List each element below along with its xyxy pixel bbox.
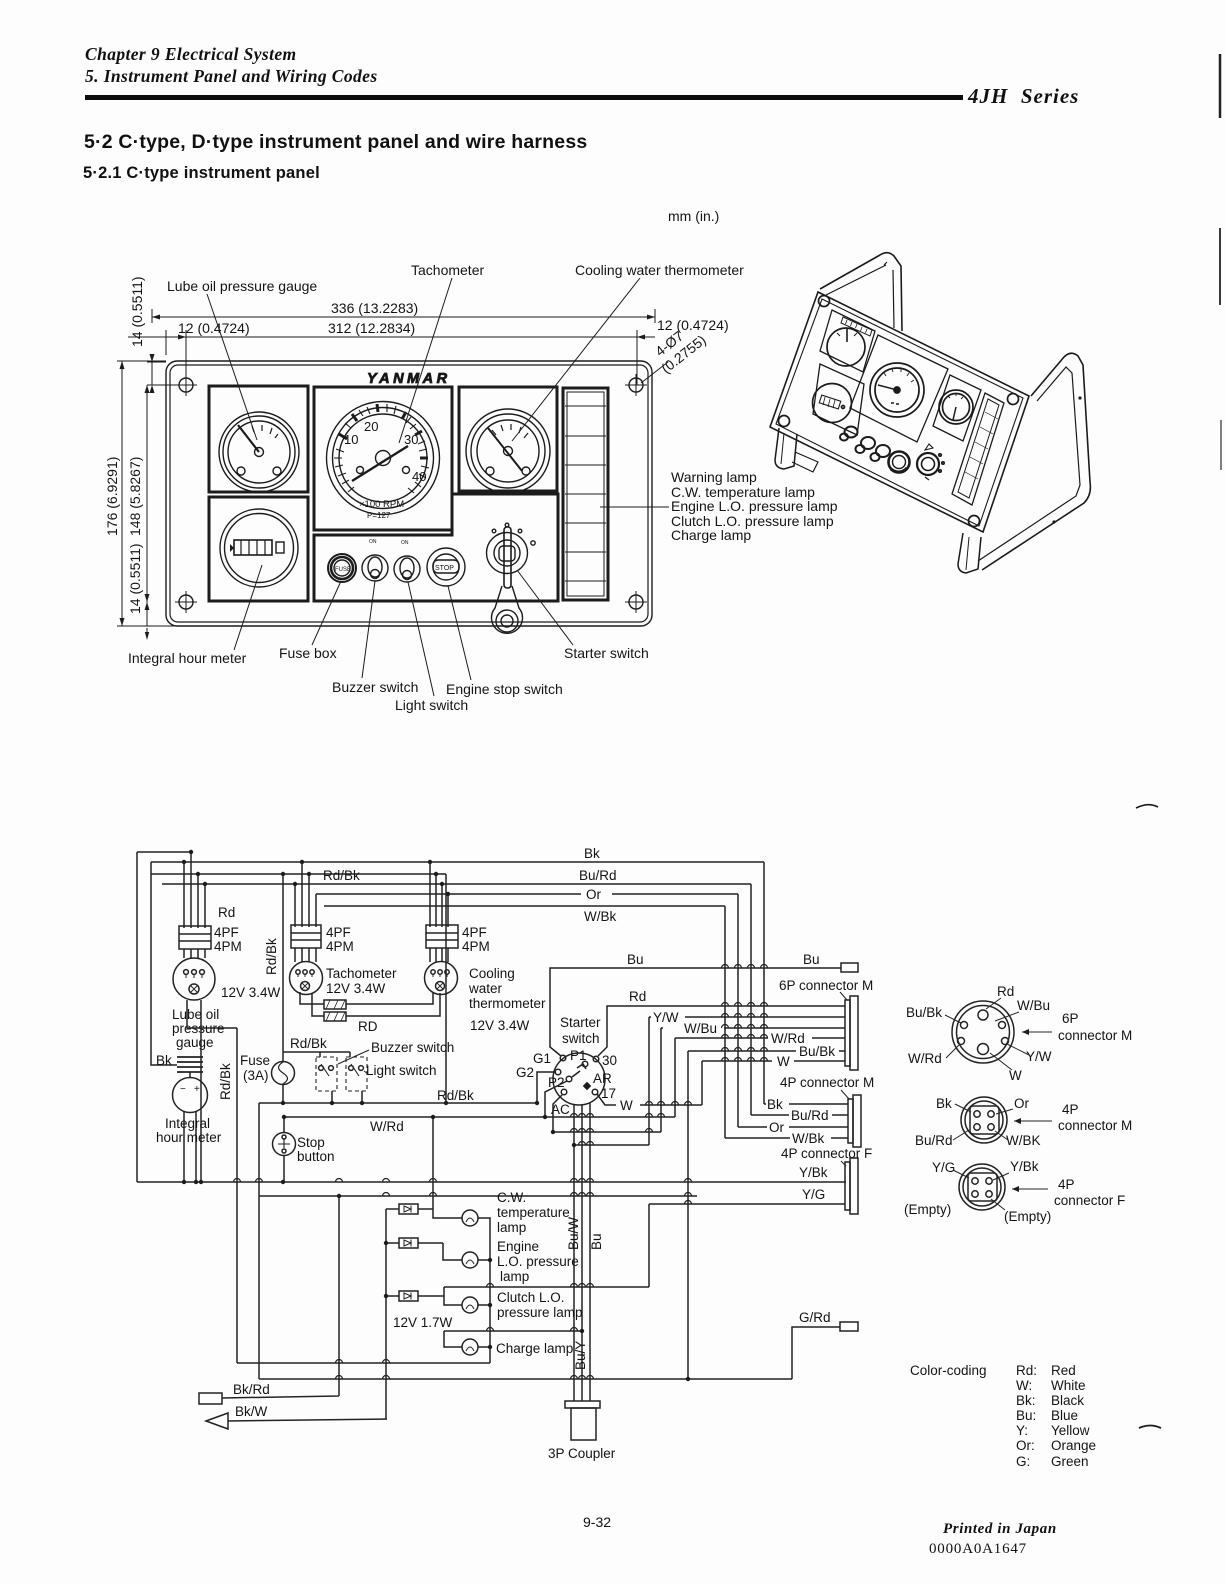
svg-text:Bu: Bu: [589, 1233, 604, 1250]
svg-text:W/Rd: W/Rd: [908, 1051, 942, 1066]
perspective tachometer box: [850, 335, 948, 442]
wire Bk bus L1: [151, 861, 764, 863]
wire bus1 Y/Bk: [137, 1181, 846, 1183]
terminal Bk/Rd: [199, 1393, 222, 1404]
svg-text:4PM: 4PM: [214, 939, 242, 954]
label Lube oil pressure gauge: [167, 278, 317, 440]
svg-text:W: W: [777, 1054, 790, 1069]
svg-text:Bu/Rd: Bu/Rd: [915, 1133, 953, 1148]
svg-text:Integral hour meter: Integral hour meter: [128, 650, 247, 666]
label CW temperature lamp: [497, 1190, 570, 1235]
wire Bu/Rd bus L3: [162, 883, 751, 885]
label Empty right: [991, 1199, 1051, 1224]
label 4PF 4PM cooling: [462, 925, 490, 954]
svg-text:W/Bu: W/Bu: [1017, 998, 1050, 1013]
wire row 1363: [237, 1362, 490, 1364]
svg-text:Bk: Bk: [936, 1096, 952, 1111]
svg-text:Clutch L.O.: Clutch L.O.: [497, 1290, 565, 1305]
svg-text:6P connector M: 6P connector M: [779, 978, 873, 993]
perspective lube gauge: [827, 328, 865, 366]
label 4P connector F detail: [1012, 1177, 1125, 1208]
svg-text:Bu/Bk: Bu/Bk: [906, 1005, 942, 1020]
svg-text:W:: W:: [1016, 1378, 1032, 1393]
svg-text:Engine L.O. pressure lamp: Engine L.O. pressure lamp: [671, 498, 838, 514]
svg-text:Bk: Bk: [156, 1053, 172, 1068]
dimension 312 and 12s: [128, 317, 729, 385]
svg-text:176 (6.9291): 176 (6.9291): [104, 457, 120, 536]
svg-text:Or: Or: [769, 1120, 785, 1135]
screw top-right: [625, 374, 647, 396]
wire Rd/Bk bus L2: [151, 873, 446, 875]
label 4PF 4PM tach: [326, 925, 354, 954]
svg-text:W/Rd: W/Rd: [370, 1119, 404, 1134]
wire clutch row 1287: [444, 1286, 649, 1288]
buzzer switch toggle: [362, 539, 388, 581]
label 6P connector M: [779, 978, 873, 1000]
wire W/Bu: [661, 1028, 845, 1132]
wire Rd/Bk row 1103: [259, 1102, 537, 1104]
warning lamp column: [563, 388, 608, 600]
svg-text:12V 3.4W: 12V 3.4W: [326, 981, 386, 996]
svg-text:L.O. pressure: L.O. pressure: [497, 1254, 579, 1269]
label W/Bu 6P: [995, 998, 1050, 1021]
svg-text:4P: 4P: [1058, 1177, 1075, 1192]
svg-text:Bu/Rd: Bu/Rd: [791, 1108, 829, 1123]
starter switch S1: [553, 1053, 605, 1105]
svg-text:×100 RPM: ×100 RPM: [359, 499, 404, 510]
dimension 14 bottom: [127, 543, 236, 640]
label Buzzer switch: [332, 581, 418, 695]
svg-text:FUSE: FUSE: [335, 567, 351, 573]
svg-text:pressure lamp: pressure lamp: [497, 1305, 583, 1320]
wire Or drop: [737, 894, 739, 1127]
svg-text:Yellow: Yellow: [1051, 1423, 1090, 1438]
tach connector pins: [295, 862, 316, 927]
svg-text:Y:: Y:: [1016, 1423, 1028, 1438]
label 4P connector M detail: [1014, 1102, 1132, 1133]
svg-text:Rd/Bk: Rd/Bk: [264, 938, 279, 975]
svg-text:C.W.: C.W.: [497, 1190, 526, 1205]
svg-text:lamp: lamp: [497, 1220, 526, 1235]
switch panel box: [314, 494, 558, 601]
wire Rd/Bk drop to fuse row: [283, 874, 446, 1103]
tachometer dial: [327, 402, 440, 521]
svg-text:Or: Or: [1014, 1096, 1030, 1111]
svg-text:Buzzer switch: Buzzer switch: [371, 1040, 454, 1055]
svg-text:Y/G: Y/G: [802, 1187, 825, 1202]
wire Bk/W: [228, 1419, 387, 1421]
svg-text:14 (0.5511): 14 (0.5511): [129, 276, 145, 347]
lamp return rail: [478, 1218, 490, 1363]
label Tachometer: [399, 262, 484, 443]
svg-text:12V 3.4W: 12V 3.4W: [470, 1018, 530, 1033]
svg-text:lamp: lamp: [500, 1269, 529, 1284]
lamp engine LO pressure: [462, 1252, 478, 1268]
dimension 148: [127, 385, 150, 602]
svg-text:P2: P2: [548, 1075, 565, 1090]
screw bottom-left: [175, 591, 197, 613]
svg-text:Charge lamp: Charge lamp: [671, 527, 751, 543]
svg-text:336 (13.2283): 336 (13.2283): [331, 300, 418, 316]
label Light switch: [395, 582, 468, 713]
svg-text:P=127: P=127: [367, 511, 391, 520]
label 4P connector M: [780, 1075, 874, 1099]
svg-text:Starter: Starter: [560, 1015, 601, 1030]
svg-text:Integral: Integral: [165, 1116, 210, 1131]
svg-text:Rd: Rd: [629, 989, 646, 1004]
svg-text:Lube oil: Lube oil: [172, 1007, 219, 1022]
perspective hour meter: [813, 384, 852, 423]
svg-text:hour meter: hour meter: [156, 1130, 222, 1145]
svg-text:(Empty): (Empty): [1004, 1209, 1051, 1224]
svg-text:Starter switch: Starter switch: [564, 645, 649, 661]
svg-text:Buzzer switch: Buzzer switch: [332, 679, 418, 695]
tachometer symbol: [290, 948, 323, 995]
svg-text:ON: ON: [369, 539, 377, 545]
svg-text:Fuse: Fuse: [240, 1053, 270, 1068]
warning lamp labels: [600, 469, 838, 543]
connector 4P M bar: [848, 1095, 861, 1147]
svg-text:12V 3.4W: 12V 3.4W: [221, 985, 281, 1000]
svg-text:Lube oil pressure gauge: Lube oil pressure gauge: [167, 278, 317, 294]
label 4PF 4PM lube: [214, 925, 242, 954]
svg-text:Fuse box: Fuse box: [279, 645, 337, 661]
label Engine stop switch: [446, 586, 563, 697]
wire G/Rd: [792, 1327, 840, 1379]
connector detail 4P F: [959, 1164, 1005, 1210]
svg-text:water: water: [468, 981, 503, 996]
label Stop button: [297, 1135, 335, 1164]
svg-text:AR: AR: [593, 1071, 612, 1086]
svg-text:Red: Red: [1051, 1363, 1076, 1378]
wire W/Bk to 4PM: [725, 1137, 848, 1139]
label Rd 6P: [986, 984, 1014, 1009]
label Fuse 3A: [240, 1053, 270, 1083]
svg-text:Rd/Bk: Rd/Bk: [218, 1063, 233, 1100]
wire Bk drop: [763, 862, 765, 1104]
svg-text:Engine stop switch: Engine stop switch: [446, 681, 563, 697]
svg-text:Color-coding: Color-coding: [910, 1363, 987, 1378]
wire Y/G: [649, 1204, 845, 1287]
lube oil 4P connector box: [179, 926, 211, 949]
svg-text:14 (0.5511): 14 (0.5511): [127, 543, 143, 614]
svg-text:Bk: Bk: [767, 1097, 783, 1112]
wire Bk drop to hour meter: [151, 862, 177, 1065]
svg-text:Y/G: Y/G: [932, 1160, 955, 1175]
wire Y/W: [649, 1017, 845, 1145]
wire hop bumps: [234, 965, 768, 1379]
svg-text:W: W: [620, 1098, 633, 1113]
svg-text:mm (in.): mm (in.): [668, 208, 719, 224]
perspective hour meter box: [813, 364, 864, 435]
lube oil gauge symbol: [173, 949, 215, 1000]
svg-text:Tachometer: Tachometer: [411, 262, 484, 278]
stop button: [273, 1117, 296, 1182]
wire P2: [545, 1081, 567, 1117]
wire D3 link: [444, 1287, 462, 1305]
lamp CW temperature: [462, 1210, 478, 1226]
svg-text:Or:: Or:: [1016, 1438, 1035, 1453]
svg-text:20: 20: [364, 419, 378, 434]
label Fuse box: [279, 581, 341, 661]
cooling thermometer symbol: [425, 948, 458, 995]
perspective cooling box: [933, 375, 981, 441]
label Y/W 6P: [1007, 1044, 1052, 1064]
screw top-left: [175, 374, 197, 396]
svg-text:G1: G1: [533, 1051, 551, 1066]
label Starter switch: [517, 570, 649, 661]
screw bottom-right: [625, 591, 647, 613]
svg-text:Bk/Rd: Bk/Rd: [233, 1382, 270, 1397]
perspective lamp strip: [952, 393, 1004, 505]
junction dots: [182, 850, 690, 1381]
svg-text:4PM: 4PM: [462, 939, 490, 954]
light switch: [346, 1052, 367, 1103]
svg-text:40: 40: [412, 469, 426, 484]
engine stop button: [427, 548, 465, 586]
svg-text:4P connector M: 4P connector M: [780, 1075, 874, 1090]
label Bu/Rd 4P detail: [915, 1130, 969, 1148]
label 4P connector F: [781, 1146, 872, 1166]
perspective screw 3: [969, 516, 980, 527]
wire Rd from 30: [598, 1006, 845, 1056]
svg-text:W: W: [1009, 1068, 1022, 1083]
wire Bu/Rd drop: [750, 884, 752, 1115]
lube connector pins: [184, 852, 205, 928]
wire W/Rd row 1117: [284, 1116, 675, 1118]
wire Bu from G1: [550, 968, 841, 1056]
wire lube minus down: [186, 1000, 188, 1028]
label Cooling water thermometer: [468, 966, 546, 1033]
color coding legend: [910, 1363, 1096, 1469]
svg-text:STOP: STOP: [435, 565, 454, 572]
svg-text:Bk: Bk: [584, 846, 600, 861]
wire W/Bk drop: [724, 906, 726, 1138]
svg-text:connector F: connector F: [1054, 1193, 1125, 1208]
cooling 4P connector box: [426, 925, 458, 948]
svg-text:Rd: Rd: [997, 984, 1014, 999]
cooling connector pins: [430, 862, 448, 927]
svg-text:Light switch: Light switch: [395, 697, 468, 713]
cooling water gauge box: [459, 387, 557, 491]
svg-text:Stop: Stop: [297, 1135, 325, 1150]
svg-text:Cooling: Cooling: [469, 966, 515, 981]
label Or 4P detail: [996, 1096, 1030, 1114]
svg-text:Blue: Blue: [1051, 1408, 1078, 1423]
integral hour meter symbol: [173, 1057, 208, 1182]
svg-text:Green: Green: [1051, 1454, 1089, 1469]
wire W/Bk bus L5: [324, 905, 725, 907]
perspective screw 1: [819, 296, 830, 307]
svg-text:3P Coupler: 3P Coupler: [548, 1446, 616, 1461]
perspective left bracket: [775, 253, 902, 472]
svg-text:Light switch: Light switch: [366, 1063, 437, 1078]
svg-text:thermometer: thermometer: [469, 996, 546, 1011]
scan edge mark 3: [1220, 420, 1222, 470]
connector detail 6P M: [952, 1001, 1014, 1063]
svg-text:4PM: 4PM: [326, 939, 354, 954]
perspective tachometer: [870, 363, 924, 417]
svg-text:G2: G2: [516, 1065, 534, 1080]
diode D2: [386, 1238, 443, 1248]
svg-text:Bu:: Bu:: [1016, 1408, 1036, 1423]
svg-text:(Empty): (Empty): [904, 1202, 951, 1217]
svg-text:button: button: [297, 1149, 335, 1164]
wire charge row 1331: [444, 1331, 582, 1347]
label Light switch: [364, 1063, 437, 1078]
perspective panel face: [770, 292, 1029, 532]
wire row B 1379: [259, 1196, 792, 1379]
label Lube oil pressure gauge: [172, 1007, 225, 1050]
starter switch: [487, 523, 536, 633]
stray pen mark 2: [1139, 1426, 1161, 1429]
svg-text:YANMAR: YANMAR: [367, 371, 451, 387]
wire R1 to cooling: [346, 993, 433, 1004]
svg-text:W/Bk: W/Bk: [584, 909, 616, 924]
wire switch feed row: [283, 1051, 350, 1053]
svg-text:White: White: [1051, 1378, 1086, 1393]
svg-text:W/Bu: W/Bu: [684, 1021, 717, 1036]
light switch toggle: [394, 540, 420, 582]
fuse box holder: [328, 554, 356, 582]
svg-text:Y/W: Y/W: [1026, 1049, 1052, 1064]
svg-text:30: 30: [602, 1053, 617, 1068]
svg-text:P1: P1: [570, 1048, 587, 1063]
svg-text:4PF: 4PF: [214, 925, 239, 940]
label Starter switch: [560, 1015, 601, 1046]
svg-text:+: +: [194, 1084, 200, 1095]
svg-text:Bu: Bu: [627, 952, 644, 967]
hour meter box: [209, 497, 308, 601]
svg-text:12V 1.7W: 12V 1.7W: [393, 1315, 453, 1330]
wire left rail: [136, 852, 138, 1182]
wire Or to 4PM: [738, 1126, 848, 1128]
label Integral hour meter: [156, 1116, 222, 1145]
perspective right bracket: [958, 353, 1090, 573]
label Bk 4P detail: [936, 1096, 971, 1112]
svg-text:Bu: Bu: [803, 952, 820, 967]
svg-text:Orange: Orange: [1051, 1438, 1096, 1453]
wire Bk to 4PM: [764, 1103, 848, 1105]
svg-text:AC: AC: [551, 1102, 570, 1117]
diode D3: [386, 1291, 444, 1301]
dimension 4-d7: [641, 327, 709, 383]
svg-text:ON: ON: [401, 540, 409, 546]
wire starter drop 2: [581, 1105, 583, 1401]
lamp charge: [462, 1339, 478, 1355]
perspective starter switch: [917, 444, 944, 480]
svg-text:Rd/Bk: Rd/Bk: [290, 1036, 327, 1051]
svg-text:12 (0.4724): 12 (0.4724): [657, 317, 729, 333]
svg-text:312 (12.2834): 312 (12.2834): [328, 320, 415, 336]
wire row 1132: [553, 1131, 661, 1133]
label Tachometer 12V 3.4W: [326, 966, 397, 996]
integral hour meter: [220, 509, 298, 587]
diode common rail: [385, 1209, 387, 1419]
svg-text:(3A): (3A): [243, 1068, 269, 1083]
tachometer box: [314, 387, 452, 530]
perspective stop button: [889, 452, 910, 473]
panel outline: [166, 361, 652, 626]
svg-text:148 (5.8267): 148 (5.8267): [127, 457, 143, 536]
fuse F1 3A: [272, 1052, 295, 1103]
svg-text:−: −: [180, 1084, 186, 1095]
wire D1 riser: [433, 1117, 462, 1218]
connector 6P M bar: [845, 996, 858, 1070]
perspective cooling gauge: [939, 390, 973, 424]
scan edge mark 2: [1219, 228, 1221, 305]
svg-text:30: 30: [404, 432, 418, 447]
connector 4P F bar: [845, 1158, 858, 1214]
dimension 14 top: [129, 276, 186, 393]
wire W pin: [702, 1061, 845, 1105]
perspective screw 4: [779, 416, 790, 427]
svg-text:Tachometer: Tachometer: [326, 966, 397, 981]
lamp clutch LO pressure: [462, 1297, 478, 1313]
wire G2: [537, 1072, 555, 1103]
label Y/G 4P F: [932, 1160, 969, 1178]
dimension 176: [104, 361, 166, 626]
svg-text:switch: switch: [562, 1031, 600, 1046]
svg-text:Bu/Y: Bu/Y: [573, 1341, 588, 1370]
svg-text:Bu/Bk: Bu/Bk: [799, 1044, 835, 1059]
resistor R1: [300, 992, 346, 1009]
label W/BK 4P detail: [995, 1131, 1041, 1148]
wire R2 to cooling: [346, 993, 440, 1016]
wire row 1145: [574, 1144, 649, 1146]
buzzer switch: [316, 1052, 337, 1103]
scan edge mark 1: [1219, 54, 1222, 118]
svg-text:RD: RD: [358, 1019, 378, 1034]
svg-text:Bk/W: Bk/W: [235, 1404, 268, 1419]
wire lube plus down: [200, 1000, 202, 1182]
terminal Bu: [841, 963, 858, 972]
wire W from 17: [597, 1094, 702, 1105]
wire AC: [553, 1095, 562, 1132]
svg-text:17: 17: [601, 1086, 616, 1101]
wire lube to Rd/Bk drop: [187, 1028, 237, 1363]
label Y/Bk 4P F: [993, 1159, 1039, 1180]
svg-text:Black: Black: [1051, 1393, 1084, 1408]
terminal G/Rd: [840, 1322, 858, 1331]
label Engine LO pressure lamp: [497, 1239, 579, 1284]
svg-text:G/Rd: G/Rd: [799, 1310, 831, 1325]
svg-text:W/BK: W/BK: [1006, 1133, 1041, 1148]
svg-text:Y/W: Y/W: [653, 1010, 679, 1025]
label Integral hour meter: [128, 565, 262, 666]
svg-text:Y/Bk: Y/Bk: [1010, 1159, 1039, 1174]
lube oil gauge box: [209, 386, 308, 492]
svg-text:4P: 4P: [1062, 1102, 1079, 1117]
svg-text:Charge lamp: Charge lamp: [496, 1341, 573, 1356]
perspective toggle switches: [840, 427, 890, 462]
wire starter drop 3: [589, 1103, 591, 1401]
svg-text:Bu/W: Bu/W: [566, 1217, 581, 1250]
wire Bu/Bk: [688, 1051, 845, 1379]
svg-text:Rd:: Rd:: [1016, 1363, 1037, 1378]
wire D2 link: [443, 1243, 462, 1260]
perspective screw 2: [1008, 394, 1019, 405]
lube oil gauge: [219, 412, 299, 492]
dimension 336: [152, 300, 655, 323]
svg-text:Y/Bk: Y/Bk: [799, 1165, 828, 1180]
wire Bk/Rd: [222, 1196, 339, 1398]
svg-text:Engine: Engine: [497, 1239, 539, 1254]
wire bus2: [259, 1103, 697, 1196]
cooling water gauge: [466, 409, 550, 493]
svg-text:W/Bk: W/Bk: [792, 1131, 824, 1146]
perspective lube gauge box: [820, 310, 875, 372]
